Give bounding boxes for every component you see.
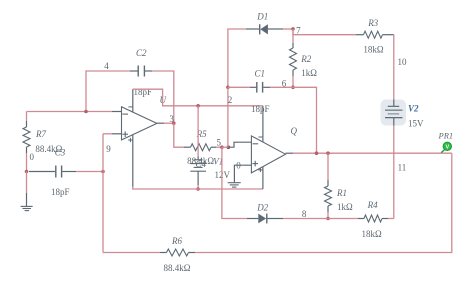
resistor R4 zigzag: [364, 215, 382, 222]
capacitor C1 left lead: [250, 86, 256, 88]
svg-text:R4: R4: [367, 200, 378, 210]
wire op-amp U plus input (node 9): [103, 133, 112, 135]
junction node 7: [291, 27, 295, 31]
svg-text:V: V: [445, 145, 449, 151]
op-amp Q bottom power pin: [262, 167, 264, 189]
op-amp Q top power minus symbol: [258, 136, 262, 138]
svg-text:5: 5: [217, 137, 222, 147]
wire node 2 column up to D1: [228, 29, 246, 87]
diode D2 cathode bar: [266, 214, 268, 224]
resistor R2 bottom stub: [292, 70, 294, 76]
ground G2 bars: [228, 182, 241, 184]
battery V2 highlight box: [381, 100, 407, 126]
op-amp U top power minus symbol: [128, 106, 132, 108]
wire R2 top lead: [292, 29, 294, 43]
op-amp U top power pin: [132, 89, 134, 112]
resistor R7 zigzag: [23, 127, 30, 147]
op-amp U bottom power plus symbol: [128, 139, 132, 141]
resistor R3 right lead: [383, 34, 394, 36]
svg-text:V2: V2: [408, 104, 419, 114]
junction C3 right / node 9: [101, 170, 105, 174]
wire V1 top stem: [197, 106, 199, 157]
wire node 4 top (C2 left leg): [86, 71, 130, 112]
op-amp Q minus input symbol: [253, 143, 259, 145]
diode D1 anode lead: [268, 28, 283, 30]
capacitor C3 plates: [55, 166, 57, 178]
svg-text:R7: R7: [35, 129, 46, 139]
svg-text:11: 11: [398, 163, 407, 173]
resistor R2 top stub: [292, 43, 294, 48]
op-amp Q minus input jog wire: [228, 142, 251, 147]
resistor R5 right lead: [211, 146, 216, 148]
wire Q plus input to ground: [234, 165, 251, 182]
junction node 4 / minus input: [84, 110, 88, 114]
resistor R1 zigzag: [325, 186, 332, 206]
resistor R2 zigzag: [290, 48, 297, 70]
svg-text:C3: C3: [55, 148, 66, 158]
ground G1 bars: [21, 205, 33, 207]
svg-text:18pF: 18pF: [251, 104, 270, 114]
svg-text:8: 8: [302, 209, 307, 219]
diode D2 anode lead: [247, 218, 258, 220]
junction riser on output: [315, 151, 319, 155]
wire node 3 down to R5: [174, 123, 184, 147]
battery V2 bottom lead: [393, 118, 395, 126]
op-amp U minus input symbol: [122, 113, 128, 115]
wire op-amp U minus input net (node 1): [27, 111, 113, 113]
svg-text:D2: D2: [256, 202, 268, 212]
svg-text:18kΩ: 18kΩ: [363, 44, 384, 54]
capacitor C2 left lead: [130, 70, 138, 72]
svg-text:R2: R2: [300, 54, 311, 64]
wire node 6 to riser: [293, 87, 317, 153]
wire C3 to node 9 column: [76, 171, 103, 173]
resistor R6 zigzag: [167, 249, 189, 256]
resistor R7 body: [26, 121, 28, 127]
wire node 2 column: [227, 87, 229, 147]
capacitor C3 left lead: [29, 171, 55, 173]
svg-text:0: 0: [30, 152, 35, 162]
wire output node to PR1: [293, 152, 452, 154]
wire node 9 column: [102, 134, 104, 253]
wire C1 to node 6: [270, 86, 293, 88]
wire R2 bottom lead to node 6: [292, 76, 294, 87]
junction R1 top on output: [326, 151, 330, 155]
svg-text:18pF: 18pF: [51, 187, 70, 197]
svg-text:0: 0: [236, 161, 241, 171]
junction node 3: [172, 121, 176, 125]
svg-text:R6: R6: [171, 236, 182, 246]
svg-text:18kΩ: 18kΩ: [362, 229, 383, 239]
wire node5 to minus jog: [222, 146, 228, 148]
diode D2 cathode lead: [267, 218, 283, 220]
op-amp U bottom power pin: [132, 134, 134, 186]
ground G1 stem: [26, 193, 28, 206]
battery V2 plates: [388, 105, 400, 107]
junction node 6: [291, 86, 295, 90]
junction node 5 right (op-amp Q minus): [227, 145, 231, 149]
probe PR1 circle: [443, 142, 451, 150]
junction V1 top on supply rail: [196, 104, 200, 108]
resistor R1 top stub: [327, 180, 329, 186]
svg-text:PR1: PR1: [438, 131, 454, 141]
op-amp Q triangle: [251, 136, 285, 173]
diode D1 cathode lead: [246, 28, 259, 30]
wire C2 right leg down to node 3: [152, 71, 174, 123]
wire R1 top lead: [327, 153, 329, 180]
wire bottom feedback right: [195, 153, 452, 252]
svg-text:10: 10: [398, 57, 408, 67]
battery V1 bottom lead: [197, 171, 199, 185]
wire R1 bottom lead: [327, 212, 329, 219]
svg-text:9: 9: [106, 144, 111, 154]
op-amp Q plus input symbol: [252, 163, 258, 165]
svg-text:15V: 15V: [408, 119, 424, 129]
svg-text:R3: R3: [367, 18, 378, 28]
wire positive supply rail: [133, 187, 263, 190]
op-amp Q top power pin: [262, 106, 264, 142]
junction V1 bottom on positive rail: [196, 187, 200, 191]
capacitor C1 plates: [256, 82, 258, 93]
wire node 0 down to ground: [26, 172, 28, 194]
wire R7 bottom to node 0: [26, 153, 28, 172]
resistor R6 right lead: [189, 252, 196, 254]
wire node 7 to R3: [293, 29, 356, 35]
wire node 10 column: [393, 35, 395, 100]
svg-text:1kΩ: 1kΩ: [301, 68, 317, 78]
op-amp U plus input symbol: [122, 133, 128, 135]
op-amp Q output pin: [286, 152, 294, 154]
diode D2 triangle: [258, 214, 266, 224]
svg-text:D1: D1: [256, 12, 268, 22]
wire R5 to node 5: [216, 146, 222, 148]
resistor R5 left lead: [184, 146, 191, 148]
svg-text:88.4kΩ: 88.4kΩ: [164, 263, 191, 273]
capacitor C1 right lead: [263, 86, 270, 88]
wire node2 to C1: [228, 86, 250, 88]
resistor R7 bottom lead: [26, 147, 28, 153]
svg-text:C1: C1: [255, 69, 266, 79]
wire node 11 column: [393, 126, 395, 219]
junction node 8: [326, 217, 330, 221]
resistor R3 zigzag: [364, 31, 383, 38]
op-amp U output pin: [157, 122, 164, 124]
svg-text:R1: R1: [336, 188, 347, 198]
capacitor C3 right lead: [62, 171, 76, 173]
junction node 0 left: [25, 170, 29, 174]
wire output node 3: [164, 122, 174, 124]
svg-text:Q: Q: [291, 126, 298, 136]
svg-text:1kΩ: 1kΩ: [337, 202, 353, 212]
capacitor C2 right lead: [145, 70, 152, 72]
resistor R4 left lead: [358, 218, 364, 220]
diode D1 triangle: [260, 24, 268, 34]
resistor R3 left lead: [356, 34, 364, 36]
probe PR1 needle: [441, 150, 444, 153]
diode D1 cathode bar: [259, 24, 261, 34]
capacitor C2 plates: [137, 66, 139, 77]
battery V1 top lead: [197, 157, 199, 160]
svg-text:R5: R5: [196, 129, 207, 139]
battery V2 top lead: [393, 100, 395, 107]
junction node 2 top: [226, 86, 230, 90]
pin stub U minus input: [112, 111, 122, 113]
resistor R6 left lead: [160, 252, 167, 254]
wire bottom feedback left: [103, 252, 160, 254]
svg-text:4: 4: [104, 61, 109, 71]
wire left column top (R7 top lead): [26, 112, 28, 122]
op-amp U triangle: [122, 107, 157, 140]
op-amp Q bottom power plus symbol: [258, 169, 262, 171]
resistor R1 bottom stub: [327, 206, 329, 212]
resistor R5 zigzag: [191, 144, 212, 151]
wire node 5 down to D2: [222, 147, 247, 218]
resistor R4 right lead: [382, 218, 388, 220]
wire R4 to node 11 column: [388, 218, 394, 220]
battery V1 plates: [194, 159, 203, 161]
svg-text:2: 2: [228, 95, 233, 105]
wire negative supply rail from U top pin: [133, 89, 263, 106]
wire V1 bottom stem: [197, 185, 199, 189]
pin stub U plus input: [112, 133, 122, 135]
wire D1 anode to node 7: [283, 28, 293, 30]
wire node 8: [283, 218, 358, 220]
junction node 5: [220, 145, 224, 149]
svg-text:3: 3: [169, 114, 174, 124]
svg-text:C2: C2: [136, 48, 147, 58]
